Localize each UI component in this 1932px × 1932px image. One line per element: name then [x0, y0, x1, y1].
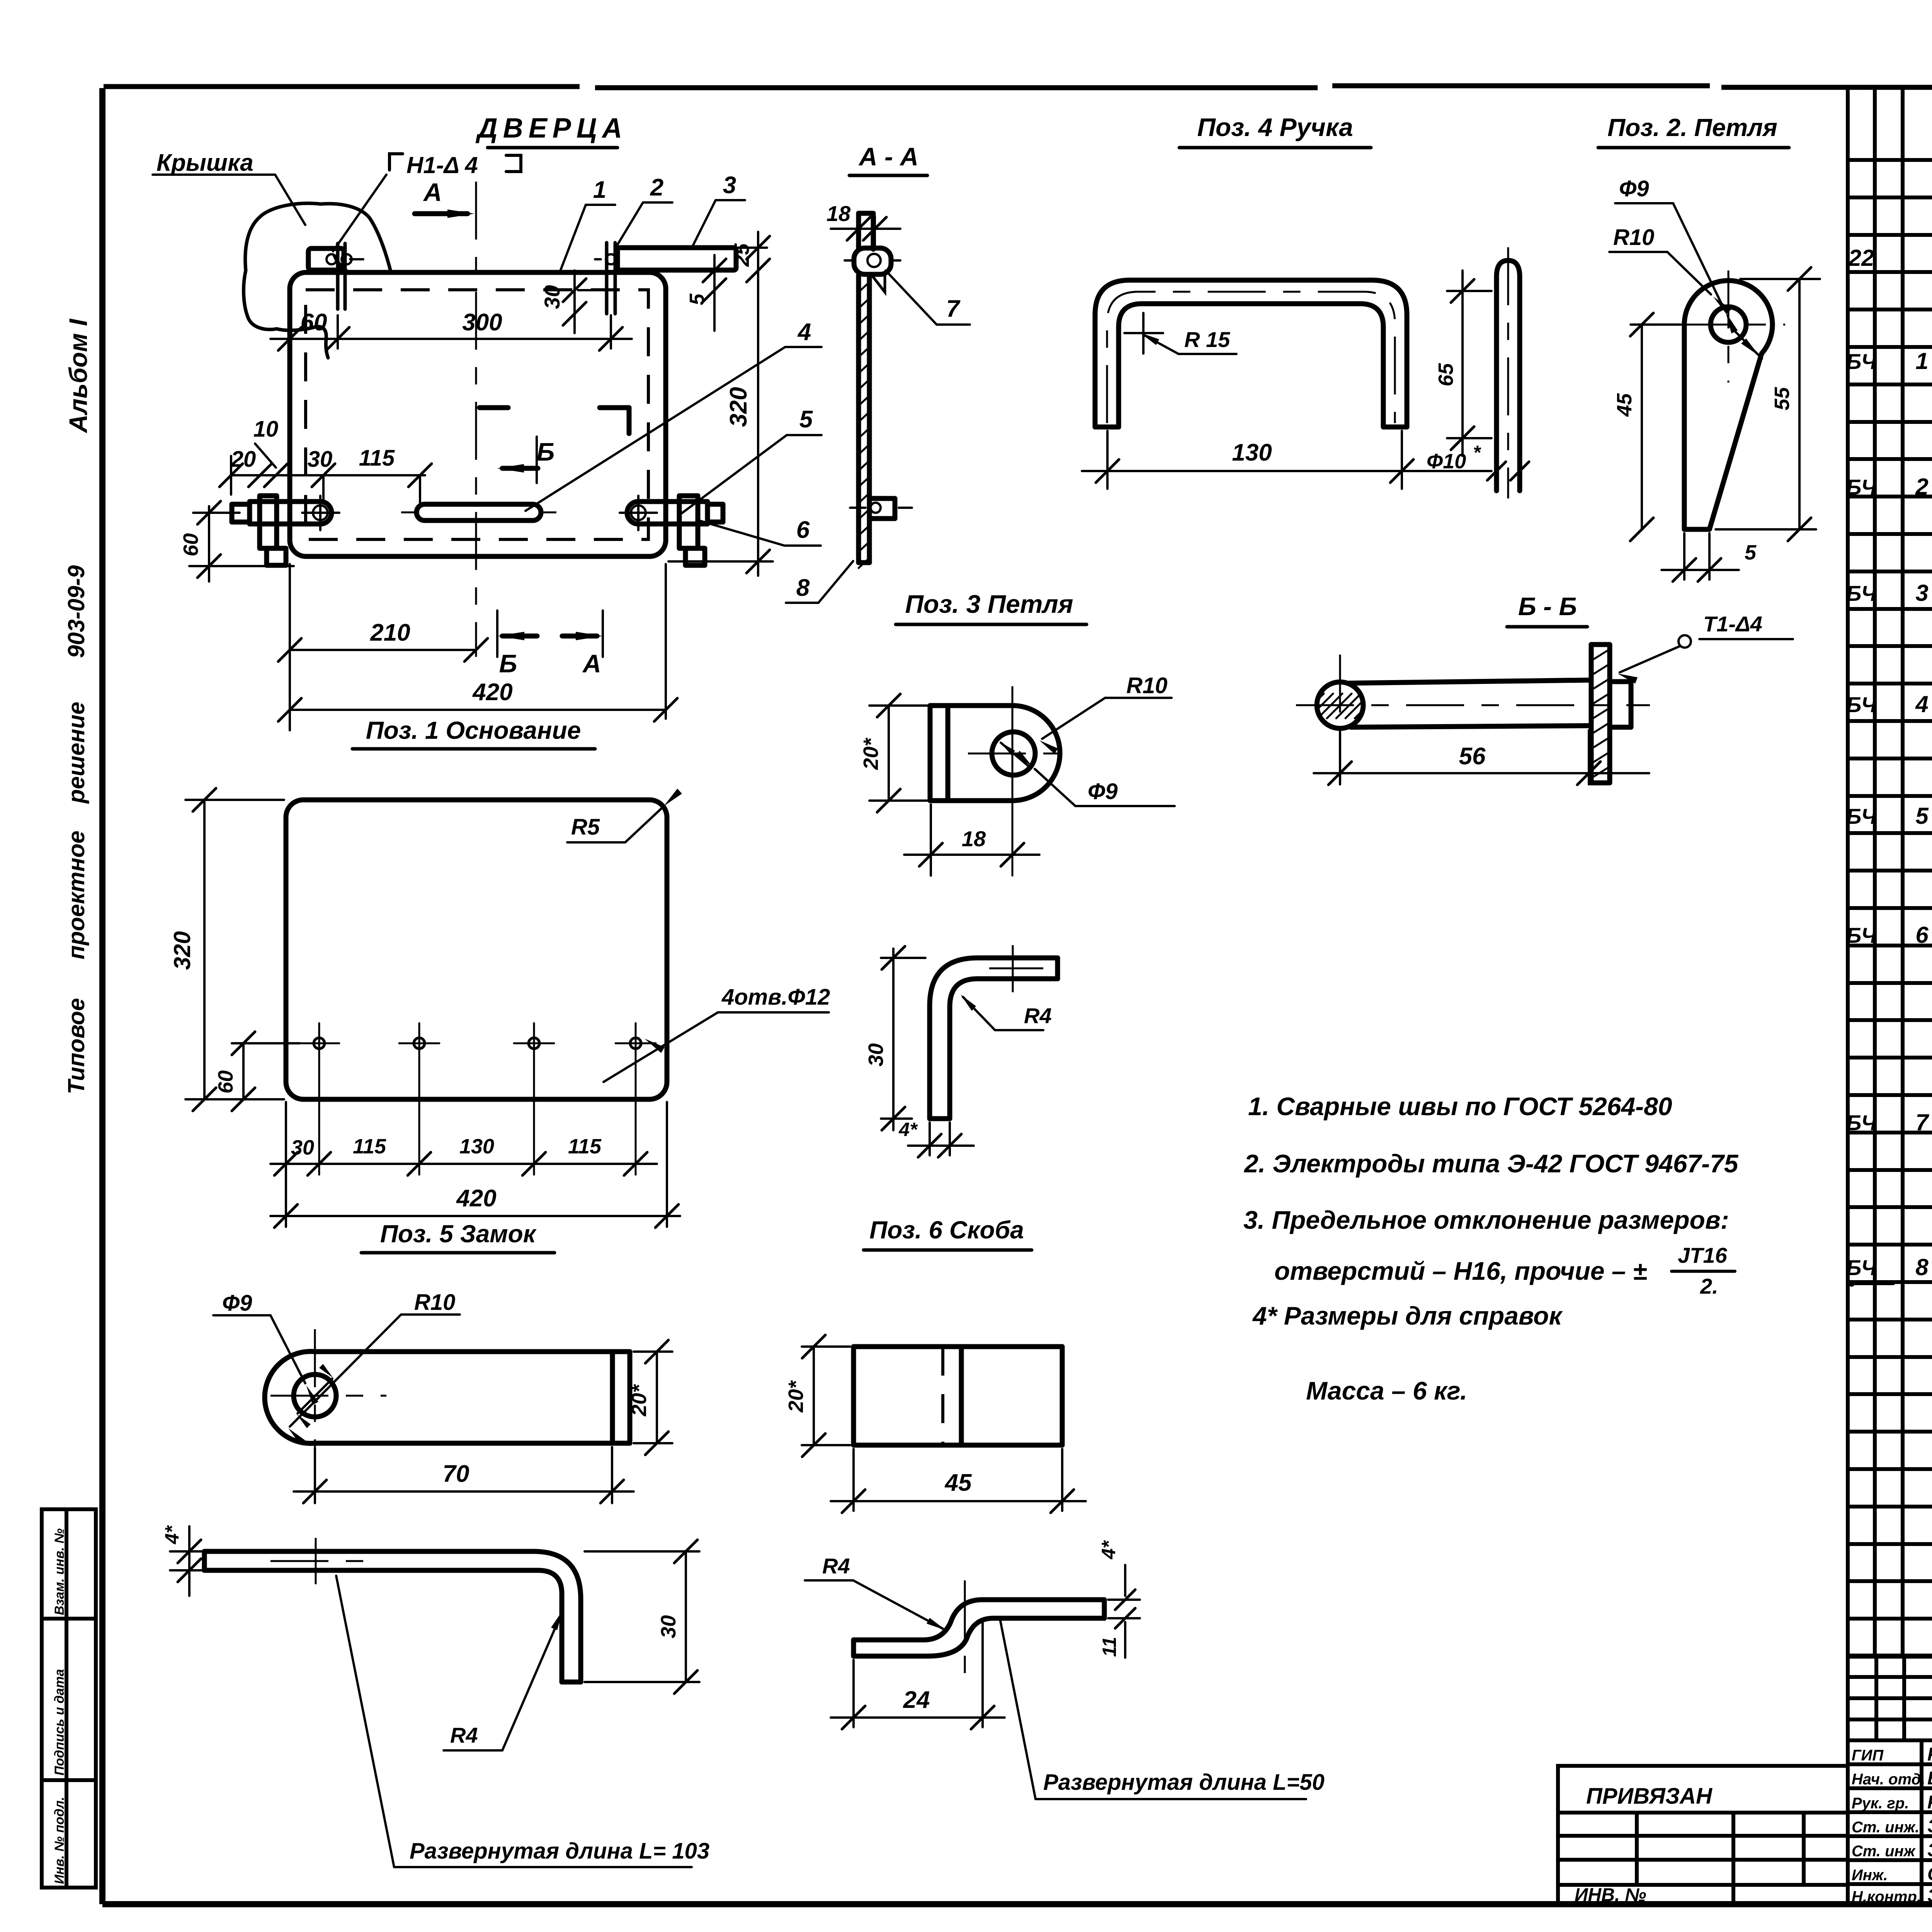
osnovanie 4otv label	[604, 985, 830, 1082]
view title DVERTSA	[475, 113, 628, 148]
signature column texts	[1852, 1744, 1932, 1906]
zamok plate	[265, 1329, 630, 1448]
svg-text:420: 420	[472, 679, 512, 706]
svg-text:Старцев: Старцев	[1927, 1864, 1932, 1884]
petlya 2 labels F9 R10	[1609, 176, 1762, 359]
svg-text:ИНВ. №: ИНВ. №	[1575, 1885, 1646, 1905]
notes text	[1243, 1092, 1739, 1405]
svg-text:R10: R10	[1613, 225, 1654, 250]
svg-text:4* Размеры для справок: 4* Размеры для справок	[1252, 1301, 1563, 1330]
svg-text:30: 30	[540, 285, 564, 309]
weld symbol H1-D4	[332, 152, 521, 275]
svg-text:ДВЕРЦА: ДВЕРЦА	[475, 113, 628, 144]
svg-text:Инж.: Инж.	[1852, 1867, 1888, 1884]
A-A strip poz.3 above hinge	[859, 213, 873, 249]
section arrow B mid	[497, 437, 554, 483]
svg-text:Н1-Δ 4: Н1-Δ 4	[406, 152, 478, 178]
petlya 3 bent view	[930, 945, 1058, 1119]
leader 5	[681, 406, 821, 514]
svg-text:7: 7	[1915, 1109, 1929, 1135]
svg-text:22: 22	[1848, 245, 1874, 271]
svg-text:Н.контр.: Н.контр.	[1852, 1888, 1921, 1905]
svg-text:Б: Б	[499, 649, 517, 678]
svg-text:2. Электроды типа Э-42 ГОС: 2. Электроды типа Э-42 ГОСТ 9467-75	[1243, 1149, 1739, 1178]
svg-text:БЧ: БЧ	[1846, 1255, 1877, 1280]
zamok labels F9 R10	[213, 1290, 460, 1445]
zamok bent view	[204, 1538, 581, 1682]
svg-text:45: 45	[1613, 393, 1636, 417]
svg-text:130: 130	[1232, 439, 1272, 466]
skoba unfolded length note	[1000, 1619, 1325, 1799]
svg-text:Волков: Волков	[1927, 1768, 1932, 1789]
svg-text:Крышка: Крышка	[156, 150, 253, 176]
handle poz.4 front	[401, 504, 556, 520]
svg-text:30: 30	[864, 1043, 888, 1066]
svg-text:Поз. 1 Основание: Поз. 1 Основание	[366, 716, 581, 744]
svg-text:65: 65	[1434, 363, 1458, 386]
section B-B trace marks	[480, 408, 629, 434]
osnovanie dim 60	[214, 1032, 299, 1111]
petlya 3 plate with hole	[930, 687, 1067, 876]
svg-text:ГИП: ГИП	[1852, 1747, 1884, 1764]
svg-text:55: 55	[1770, 387, 1794, 410]
dim 10 20 30 115 left	[219, 417, 432, 502]
svg-text:20: 20	[231, 447, 256, 472]
svg-text:2.: 2.	[1700, 1274, 1718, 1298]
dim 300 top	[338, 309, 632, 350]
svg-text:Развернутая длина L=50: Развернутая длина L=50	[1043, 1770, 1325, 1795]
svg-text:R4: R4	[1024, 1003, 1052, 1028]
svg-text:А: А	[582, 649, 601, 678]
handle dim 130	[1082, 431, 1480, 489]
hinge top-right (poz.2)	[595, 243, 616, 314]
door vertical centerline	[475, 182, 477, 657]
svg-text:А - А: А - А	[858, 142, 918, 171]
svg-text:300: 300	[462, 309, 502, 336]
petlya 2 dims 45 55 5	[1613, 267, 1820, 582]
B-B label T1-D4	[1617, 612, 1793, 684]
svg-text:6: 6	[1915, 922, 1929, 948]
svg-text:Ф10: Ф10	[1427, 450, 1466, 473]
svg-text:18: 18	[827, 201, 851, 226]
svg-text:60: 60	[214, 1070, 237, 1094]
B-B pin with hatched circle	[1296, 655, 1650, 782]
svg-text:115: 115	[353, 1135, 386, 1158]
left margin caption Album I	[64, 318, 92, 434]
door leaf poz.1 outline	[290, 272, 666, 556]
svg-text:4: 4	[797, 319, 811, 345]
svg-text:10: 10	[253, 417, 279, 442]
leader 6	[700, 517, 821, 546]
svg-text:2: 2	[650, 174, 663, 201]
leader 2	[616, 174, 672, 247]
parts table grid	[1848, 87, 1932, 1656]
svg-text:Ст. инж.: Ст. инж.	[1852, 1819, 1919, 1836]
leader 1	[560, 177, 615, 273]
svg-text:7: 7	[946, 296, 961, 322]
svg-text:R4: R4	[450, 1723, 478, 1747]
view title Poz.2 Petlya	[1598, 114, 1789, 148]
zamok dims 70 20*	[294, 1340, 672, 1503]
svg-text:Ф9: Ф9	[1088, 779, 1118, 804]
svg-text:БЧ: БЧ	[1846, 804, 1877, 828]
svg-text:18: 18	[962, 827, 986, 851]
svg-text:24: 24	[903, 1687, 930, 1713]
dim 60 top	[270, 282, 359, 350]
leader 4	[526, 319, 821, 511]
A-A mid bracket	[850, 498, 912, 519]
kryshka cloud outline	[243, 203, 391, 358]
svg-text:30: 30	[308, 447, 333, 472]
view title Poz.5 Zamok	[361, 1220, 554, 1253]
svg-text:Зайцева: Зайцева	[1927, 1816, 1932, 1837]
svg-text:Рыбак: Рыбак	[1927, 1792, 1932, 1813]
svg-text:R5: R5	[571, 815, 600, 840]
svg-text:А: А	[423, 178, 442, 206]
osnovanie R5	[567, 789, 682, 842]
svg-text:30: 30	[291, 1136, 314, 1159]
view title Poz.6 Skoba	[864, 1216, 1032, 1250]
svg-text:БЧ: БЧ	[1846, 581, 1877, 605]
petlya 3 dims 20* 18	[859, 694, 1039, 876]
svg-text:Ф9: Ф9	[1619, 176, 1649, 201]
svg-text:8: 8	[796, 575, 810, 601]
svg-text:4*: 4*	[898, 1119, 918, 1140]
view title Poz.4 Ruchka	[1179, 113, 1371, 148]
svg-text:БЧ: БЧ	[1846, 692, 1877, 717]
svg-text:Зарецкий: Зарецкий	[1927, 1840, 1932, 1861]
svg-text:30: 30	[657, 1615, 680, 1638]
petlya 2 teardrop	[1673, 270, 1785, 529]
section arrow A top	[415, 178, 474, 218]
view title Poz.1 Osnovanie	[352, 716, 595, 749]
B-B plate hatched	[1591, 645, 1631, 783]
osnovanie dims bottom	[270, 1102, 680, 1228]
osnovanie plate	[286, 800, 667, 1099]
A-A leader 7	[886, 270, 970, 325]
handle U-shape	[1095, 280, 1407, 427]
svg-text:Поз. 5 Замок: Поз. 5 Замок	[380, 1220, 537, 1248]
svg-text:60: 60	[179, 533, 202, 556]
latch left poz.5/6	[225, 496, 339, 565]
privyazan block	[1558, 1766, 1848, 1905]
svg-text:отверстий – Н16, прочие –: отверстий – Н16, прочие – ±	[1274, 1257, 1647, 1285]
hinge strip poz.3 top-right	[617, 248, 736, 270]
svg-text:JТ16: JТ16	[1678, 1243, 1727, 1267]
svg-text:Б: Б	[537, 437, 555, 466]
B-B dim 56	[1314, 730, 1649, 785]
left margin caption project code	[63, 565, 89, 1094]
svg-text:5: 5	[685, 293, 709, 305]
svg-text:4: 4	[1915, 691, 1928, 717]
view title Poz.3 Petlya	[896, 590, 1087, 624]
kryshka label	[153, 150, 305, 225]
osnovanie holes	[299, 1023, 656, 1175]
svg-text:Масса – 6 кг.: Масса – 6 кг.	[1306, 1376, 1467, 1405]
A-A plate	[859, 275, 869, 568]
hinge top-left (poz.2/7)	[308, 243, 363, 309]
svg-text:420: 420	[456, 1185, 496, 1212]
leader 3	[692, 172, 745, 248]
svg-text:903-09-9: 903-09-9	[63, 565, 89, 658]
svg-text:Поз. 2. Петля: Поз. 2. Петля	[1607, 114, 1777, 141]
handle side view	[1497, 247, 1520, 498]
svg-text:25: 25	[730, 243, 753, 267]
svg-text:Зарецкий: Зарецкий	[1927, 1886, 1932, 1906]
svg-text:Поз. 6 Скоба: Поз. 6 Скоба	[869, 1216, 1024, 1244]
margin stamp boxes	[42, 1509, 96, 1888]
svg-text:20*: 20*	[628, 1384, 651, 1417]
dim 420	[278, 564, 677, 721]
zamok unfolded length note	[336, 1576, 709, 1867]
A-A hinge top	[845, 248, 900, 292]
A-A dim 18	[827, 201, 900, 247]
svg-text:3: 3	[1915, 580, 1928, 606]
handle R15	[1124, 313, 1236, 354]
svg-text:5: 5	[1745, 541, 1757, 564]
svg-text:45: 45	[944, 1469, 972, 1496]
svg-text:Развернутая длина L= 103: Развернутая длина L= 103	[410, 1838, 709, 1864]
section A-A title	[849, 142, 927, 175]
svg-text:Типовое: Типовое	[63, 998, 89, 1094]
dim 210	[278, 564, 488, 730]
svg-text:Поз. 3 Петля: Поз. 3 Петля	[905, 590, 1073, 618]
dim 25 right	[730, 232, 770, 282]
svg-text:Ф9: Ф9	[222, 1291, 252, 1316]
svg-text:ПРИВЯЗАН: ПРИВЯЗАН	[1586, 1784, 1713, 1809]
svg-text:R4: R4	[822, 1554, 850, 1578]
svg-text:5: 5	[1915, 803, 1929, 829]
svg-text:Нач. отд.: Нач. отд.	[1852, 1771, 1925, 1788]
svg-text:320: 320	[725, 387, 752, 427]
handle side dims 65 f10	[1427, 270, 1529, 492]
svg-text:5: 5	[799, 406, 813, 433]
svg-text:БЧ: БЧ	[1846, 923, 1877, 947]
skoba plate	[854, 1347, 1062, 1445]
dim 30 hinge	[540, 270, 603, 333]
svg-text:3. Предельное отклонение р: 3. Предельное отклонение размеров:	[1243, 1206, 1729, 1234]
svg-text:Ст. инж: Ст. инж	[1852, 1843, 1916, 1860]
svg-text:решение: решение	[63, 702, 89, 804]
svg-text:проектное: проектное	[63, 831, 89, 959]
svg-text:20*: 20*	[859, 737, 883, 770]
section B-B title	[1507, 592, 1587, 627]
svg-text:Подпись и дата: Подпись и дата	[52, 1669, 67, 1776]
svg-text:Альбом I: Альбом I	[64, 318, 92, 434]
svg-text:115: 115	[568, 1135, 602, 1158]
svg-text:4*: 4*	[161, 1525, 183, 1544]
svg-text:4отв.Ф12: 4отв.Ф12	[721, 985, 830, 1010]
zamok bend dims	[161, 1525, 699, 1750]
svg-text:1: 1	[593, 177, 606, 203]
skoba bend dims	[805, 1540, 1140, 1729]
svg-text:3: 3	[723, 172, 736, 199]
svg-text:БЧ: БЧ	[1846, 349, 1877, 374]
leader 8	[786, 561, 853, 603]
svg-text:Инв. № подл.: Инв. № подл.	[52, 1797, 67, 1884]
svg-text:320: 320	[169, 931, 195, 970]
skoba Z bent view	[854, 1580, 1104, 1673]
svg-text:115: 115	[359, 446, 395, 471]
svg-text:Поз. 4 Ручка: Поз. 4 Ручка	[1197, 113, 1353, 141]
svg-text:1. Сварные швы по ГОСТ 526: 1. Сварные швы по ГОСТ 5264-80	[1248, 1092, 1672, 1121]
svg-text:6: 6	[796, 517, 810, 543]
petlya 3 bend dims	[864, 946, 1052, 1157]
petlya 3 labels R10 F9	[1000, 673, 1175, 806]
svg-text:Б - Б: Б - Б	[1518, 592, 1577, 621]
svg-text:130: 130	[459, 1135, 494, 1158]
svg-text:11: 11	[1099, 1637, 1120, 1657]
svg-text:56: 56	[1459, 743, 1486, 770]
svg-text:БЧ: БЧ	[1846, 1111, 1877, 1135]
dim 5 right	[685, 255, 736, 331]
svg-text:Рук. гр.: Рук. гр.	[1852, 1795, 1909, 1812]
svg-text:4*: 4*	[1098, 1540, 1119, 1560]
svg-text:БЧ: БЧ	[1846, 475, 1877, 499]
svg-text:2: 2	[1915, 474, 1928, 500]
parts list entries	[1846, 207, 1932, 1473]
section arrows bottom	[497, 611, 603, 678]
svg-text:20*: 20*	[784, 1380, 808, 1413]
svg-text:R10: R10	[1126, 673, 1167, 698]
svg-text:210: 210	[370, 619, 410, 646]
svg-text:Т1-Δ4: Т1-Δ4	[1703, 612, 1762, 636]
svg-text:R10: R10	[414, 1290, 455, 1315]
dim 60 bottom-left	[179, 501, 294, 582]
svg-text:*: *	[1473, 442, 1481, 463]
svg-text:70: 70	[443, 1461, 469, 1487]
osnovanie dim 320	[169, 788, 284, 1111]
dim 320 right	[668, 278, 773, 576]
skoba dims 20* 45	[784, 1335, 1086, 1513]
svg-text:8: 8	[1915, 1254, 1929, 1280]
svg-text:R 15: R 15	[1184, 327, 1230, 352]
svg-text:Ройзман: Ройзман	[1927, 1744, 1932, 1765]
title block grid	[1848, 1656, 1932, 1904]
svg-text:Взам. инв. №: Взам. инв. №	[52, 1528, 67, 1615]
svg-text:1: 1	[1915, 348, 1928, 374]
latch right poz.5/6	[620, 496, 723, 565]
svg-text:60: 60	[301, 309, 327, 336]
